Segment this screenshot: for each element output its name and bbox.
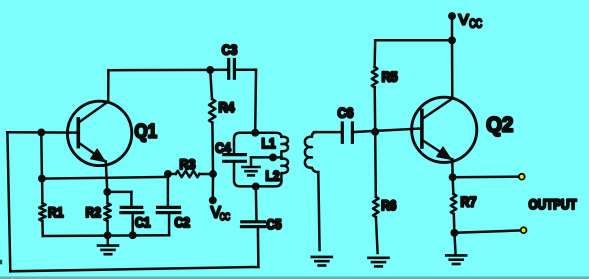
ground (tank tap) bbox=[250, 157, 253, 166]
node: bottom rail / C1 junction bbox=[130, 233, 135, 238]
svg-text:R1: R1 bbox=[48, 204, 64, 220]
node: base/R1 branch junction bbox=[39, 130, 44, 135]
inductor L2 bbox=[281, 158, 288, 180]
wire: Q1 base lead bbox=[7, 131, 78, 134]
wire: feedback left vertical bbox=[7, 132, 10, 271]
node: tank top bbox=[253, 130, 258, 135]
wire: C6 to coil bbox=[314, 131, 341, 134]
resistor R6 bbox=[374, 132, 377, 197]
node: Vcc / R5 rail junction bbox=[449, 38, 454, 43]
ground (below input coil) bbox=[312, 256, 332, 259]
wire: output bottom lead bbox=[454, 230, 520, 232]
capacitor C6 bbox=[341, 123, 344, 142]
wire: bottom rail bbox=[43, 234, 169, 237]
svg-text:C4: C4 bbox=[215, 140, 231, 156]
capacitor C4 bbox=[224, 153, 246, 156]
capacitor C2 bbox=[167, 174, 170, 206]
scan edge bottom bbox=[0, 276, 589, 279]
wire: feedback bottom loop bbox=[10, 267, 258, 271]
wire: base to R1 branch vertical bbox=[40, 132, 43, 178]
resistor R2 bbox=[104, 203, 110, 221]
wire: C1 branch bbox=[107, 191, 131, 194]
tank box top edge bbox=[234, 133, 281, 153]
node: tank bottom bbox=[253, 184, 258, 189]
node: collector line / C3 / R4 junction bbox=[208, 67, 213, 72]
wire: tank bottom to C5 bbox=[255, 186, 258, 220]
svg-text:C6: C6 bbox=[338, 104, 354, 120]
capacitor C3 bbox=[210, 69, 227, 72]
resistor R4 bbox=[210, 70, 212, 99]
node: R3 left / C2 junction bbox=[165, 171, 170, 176]
ground (below R6) bbox=[369, 256, 389, 259]
capacitor C5 bbox=[242, 220, 265, 223]
wire: collector top line bbox=[108, 69, 210, 72]
inductor (input RFC coil) bbox=[305, 132, 318, 172]
node: emitter / output junction bbox=[450, 175, 455, 180]
svg-text:R7: R7 bbox=[461, 194, 477, 210]
svg-text:R5: R5 bbox=[382, 69, 398, 85]
svg-text:CC: CC bbox=[469, 19, 482, 31]
inductor L1 bbox=[281, 137, 288, 158]
svg-text:C2: C2 bbox=[175, 214, 191, 230]
resistor R3 bbox=[168, 173, 176, 176]
resistor R5 bbox=[373, 40, 376, 67]
scan speck left edge bbox=[0, 260, 2, 265]
svg-text:R3: R3 bbox=[180, 156, 196, 172]
wire: Q2 collector drop bbox=[451, 40, 454, 98]
resistor R1 bbox=[41, 179, 44, 204]
transistor Q1 bbox=[67, 101, 131, 165]
svg-text:R4: R4 bbox=[219, 99, 235, 115]
capacitor C1 bbox=[121, 206, 141, 209]
wire: Vcc drop bbox=[451, 16, 454, 40]
terminal: output bottom bbox=[521, 227, 527, 233]
resistor R7 bbox=[451, 177, 454, 194]
svg-text:C1: C1 bbox=[135, 214, 151, 230]
svg-text:R6: R6 bbox=[381, 198, 396, 213]
node: base / R5 / R6 junction bbox=[373, 129, 378, 134]
power Vcc (left) bbox=[212, 174, 215, 198]
svg-text:Q1: Q1 bbox=[135, 121, 158, 142]
wire: output top lead bbox=[453, 175, 519, 178]
svg-text:L1: L1 bbox=[262, 135, 276, 151]
tank box left-bottom edge bbox=[234, 163, 281, 187]
wire: Q1 emitter drop bbox=[106, 162, 108, 192]
svg-text:V: V bbox=[459, 13, 469, 29]
node: bottom rail / R2 junction bbox=[105, 233, 110, 238]
power Vcc (right) terminal bbox=[449, 13, 454, 18]
svg-text:R2: R2 bbox=[86, 204, 102, 220]
wire: Q2 base lead bbox=[354, 128, 422, 132]
wire: coil to ground bbox=[318, 172, 319, 250]
wire: mid rail (base net) bbox=[42, 177, 168, 179]
svg-text:L2: L2 bbox=[266, 167, 280, 183]
wire: coil tap bbox=[251, 156, 281, 159]
svg-text:OUTPUT: OUTPUT bbox=[529, 196, 577, 212]
wire: Q2 emitter drop bbox=[451, 159, 454, 177]
svg-text:CC: CC bbox=[220, 211, 231, 223]
node: emitter/C1 branch junction bbox=[105, 189, 110, 194]
ground (below R7) bbox=[454, 233, 455, 255]
wire: C3 to tank riser bbox=[254, 70, 257, 133]
wire: rail to R5 bbox=[375, 39, 452, 42]
node: tap junction bbox=[270, 155, 275, 160]
transistor Q2 bbox=[412, 97, 477, 162]
wire: Q1 collector riser bbox=[107, 70, 110, 101]
svg-text:Q2: Q2 bbox=[486, 113, 513, 136]
svg-text:C5: C5 bbox=[267, 216, 282, 232]
svg-text:C3: C3 bbox=[222, 42, 238, 58]
node: rail corner at R1 bbox=[39, 176, 44, 181]
wire: feedback riser to C5 bottom bbox=[257, 227, 260, 267]
terminal: output top bbox=[519, 174, 525, 180]
node: R3 / R4 / Vcc junction bbox=[210, 171, 215, 176]
ground (below R2) bbox=[106, 235, 109, 244]
node: R7 bottom / output junction bbox=[452, 230, 457, 235]
